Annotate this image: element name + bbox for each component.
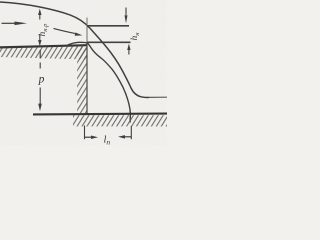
downstream channel bottom: [33, 113, 167, 116]
dimension p dashed extension line: [39, 50, 41, 93]
dimension p lower arrow (points down to downstream bottom): [39, 93, 41, 104]
wall left-side hatching: [77, 46, 86, 114]
tailwater surface fading right: [149, 96, 167, 98]
upstream channel bottom: [0, 45, 87, 47]
brink water-level reference line: [87, 25, 129, 27]
paper background: [0, 0, 167, 145]
dimension h_n bottom arrow (points up at crest level line): [128, 50, 130, 55]
jet lower nappe curve springing from crest arc: [67, 42, 131, 122]
crest level reference line: [87, 41, 131, 43]
upstream water surface curve (upper nappe, plunging into tailwater): [0, 2, 149, 97]
dimension l left arrow (points right toward label): [85, 136, 92, 138]
paper grain overlay: [0, 0, 1, 1]
dimension h_n.r lower arrow (points down to channel bottom): [39, 34, 41, 42]
dimension l left extension line: [84, 126, 86, 140]
downstream bottom hatching: [73, 115, 167, 126]
dimension l right extension line: [130, 126, 132, 139]
dimension h_n top arrow (points down at brink level line): [125, 8, 127, 16]
drop wall vertical face with upper reference extension: [86, 18, 88, 43]
flow arrow over crest (curved): [54, 28, 76, 33]
flow arrow upstream: [2, 22, 17, 24]
dimension l right arrow (points left toward label): [125, 136, 132, 138]
upstream bottom hatching: [0, 46, 87, 60]
dimension h_n.r upper arrow (points up to water surface): [39, 12, 41, 20]
